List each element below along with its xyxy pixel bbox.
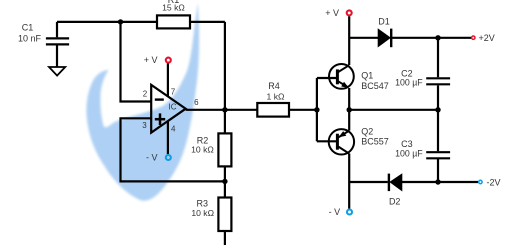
svg-text:3: 3 [142, 121, 147, 130]
capacitor C2 [426, 78, 450, 84]
node B : output junction [222, 107, 227, 112]
-V terminal transistors [347, 210, 352, 215]
svg-text:1 kΩ: 1 kΩ [267, 91, 285, 101]
diode D1 [378, 29, 390, 46]
op-amp plus input mark [155, 113, 165, 125]
wire top rail left segment [57, 21, 157, 23]
node H : bottom rail / C3 junction [435, 179, 440, 184]
diode D2 [390, 174, 402, 190]
svg-text:IC: IC [169, 103, 177, 112]
node G : C2/C3 junction [435, 107, 440, 112]
wire bottom rail Q2 to D2 [349, 181, 388, 183]
wire +V supply vertical through Q1 collector [348, 16, 350, 65]
svg-text:R4: R4 [268, 81, 280, 91]
svg-text:R3: R3 [197, 199, 209, 209]
wire feedback vertical down to R2 [224, 22, 226, 133]
wire top rail right segment to feedback corner [190, 21, 225, 23]
+V terminal op-amp [166, 58, 171, 63]
svg-text:- V: - V [146, 153, 158, 163]
op-amp U1 triangle [151, 85, 186, 133]
wire R3 bottom lead [224, 231, 226, 245]
svg-text:D1: D1 [378, 17, 390, 27]
wire emitter node to Q2 emitter [348, 110, 350, 131]
svg-text:10 kΩ: 10 kΩ [191, 145, 214, 155]
node E : emitters junction [347, 107, 352, 112]
wire D1 to +2V [391, 37, 471, 39]
op-amp pin 7 stub [167, 63, 169, 96]
svg-text:+ V: + V [144, 55, 158, 65]
wire C2 top lead [437, 38, 439, 77]
wire R4 to base node [289, 109, 317, 111]
+2V terminal [472, 36, 475, 39]
wire inverting input tap vertical [121, 22, 152, 102]
svg-text:+ V: + V [325, 8, 339, 18]
capacitor C3 [426, 152, 450, 158]
svg-text:D2: D2 [389, 197, 401, 207]
wire emitters to C2/C3 node [349, 109, 438, 111]
svg-text:6: 6 [194, 98, 199, 107]
svg-text:4: 4 [171, 125, 176, 134]
capacitor C1 [46, 38, 69, 44]
node A : top rail junction [118, 19, 123, 24]
wire Q2 base lead [317, 140, 336, 142]
wire Q2 collector down to -V [348, 154, 350, 209]
node F : top rail / C2 junction [435, 35, 440, 40]
svg-text:7: 7 [171, 88, 176, 97]
wire Q1 emitter to output node [348, 88, 350, 110]
ground [49, 67, 65, 76]
decorative blue swoosh highlight [86, 3, 199, 201]
node C : R2/R3 junction [222, 179, 227, 184]
svg-text:BC557: BC557 [361, 136, 389, 146]
svg-text:Q1: Q1 [361, 70, 373, 80]
wire base bus vertical [316, 78, 318, 141]
svg-text:100 µF: 100 µF [395, 77, 423, 87]
wire R2 bottom lead [224, 167, 226, 182]
wire D2 to -2V [402, 181, 478, 183]
op-amp minus input mark [155, 98, 164, 100]
svg-text:Q2: Q2 [361, 127, 373, 137]
op-amp pin 4 stub [167, 121, 169, 154]
wire C3 top lead [437, 110, 439, 151]
wire top rail to D1 [349, 37, 378, 39]
svg-text:C1: C1 [22, 23, 34, 33]
resistor R3 [218, 198, 231, 232]
-2V terminal [479, 180, 482, 183]
transistor Q1 BC547 [329, 64, 354, 89]
svg-text:-2V: -2V [487, 177, 501, 187]
wire R3 top lead [224, 181, 226, 197]
svg-text:10 kΩ: 10 kΩ [191, 208, 214, 218]
svg-text:+2V: +2V [479, 33, 495, 43]
resistor R4 [257, 103, 289, 117]
wire C1 top lead [56, 22, 58, 37]
svg-text:100 µF: 100 µF [395, 148, 423, 158]
svg-text:10 nF: 10 nF [18, 33, 42, 43]
wire C1 bottom lead to ground [56, 45, 58, 67]
resistor R2 [218, 133, 231, 166]
wire non-inverting input loop [121, 118, 225, 181]
-V terminal op-amp [166, 155, 171, 160]
svg-text:2: 2 [143, 89, 148, 98]
wire C3 bottom lead [437, 159, 439, 182]
wire Q1 base lead [317, 77, 336, 79]
resistor R1 [157, 15, 190, 28]
node D : bases junction [314, 107, 319, 112]
wire C2 bottom lead [437, 85, 439, 109]
svg-text:- V: - V [329, 207, 341, 217]
svg-text:15 kΩ: 15 kΩ [162, 2, 185, 12]
wire op-amp output to R4 [186, 109, 258, 111]
transistor Q2 BC557 [329, 129, 354, 154]
+V terminal transistors [347, 10, 352, 15]
svg-text:BC547: BC547 [361, 81, 389, 91]
